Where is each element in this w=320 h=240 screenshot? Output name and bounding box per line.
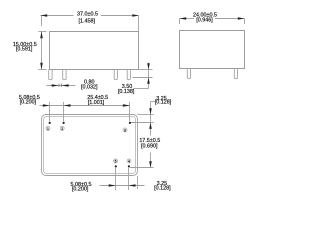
dimension 15.00 height line	[38, 32, 46, 70]
dimension 3.25 top right	[130, 102, 156, 168]
dimension 37.0 width line	[41, 16, 139, 32]
end view pin right	[234, 69, 237, 79]
dimension 5.08 and 25.4 top line	[40, 105, 130, 107]
dimension 17.5 label and arrow	[149, 161, 152, 167]
side view pin P3	[114, 70, 117, 80]
dimension 3.50 label	[118, 84, 135, 95]
extension lines pins 1 2 3 up	[50, 102, 130, 121]
svg-text:1: 1	[47, 127, 49, 131]
dimension 0.80 arrows	[52, 84, 69, 87]
svg-text:[0.128]: [0.128]	[155, 99, 172, 105]
pad dot 2	[63, 122, 65, 124]
svg-text:[0.591]: [0.591]	[16, 47, 33, 53]
pad dot 4	[128, 165, 130, 167]
dimension 3.50 pin length line	[133, 63, 153, 89]
pad dot 5	[115, 165, 117, 167]
dimension 3.25 bottom label	[154, 181, 171, 192]
dimension 5.08/25.4 arrows	[43, 104, 130, 107]
dimension 3.25 top arrows	[149, 108, 152, 129]
dimension 3.50 arrows	[147, 63, 150, 84]
bottom view outer outline	[42, 115, 138, 176]
svg-text:[0.200]: [0.200]	[72, 187, 89, 193]
dimension 0.80 pin width line	[47, 85, 76, 87]
pin number 3	[123, 128, 127, 133]
dimension 24.00 arrows	[180, 17, 245, 20]
side view pin P2	[63, 70, 66, 80]
svg-text:[0.946]: [0.946]	[196, 18, 213, 24]
pad dot 1	[49, 122, 51, 124]
dimension 5.08 bottom label	[71, 182, 92, 193]
dimension 0.80 ticks	[59, 84, 61, 87]
extension lines pins 5 4 down	[116, 168, 129, 190]
dimension 25.4 label	[87, 95, 108, 106]
svg-text:[0.128]: [0.128]	[154, 186, 171, 192]
svg-text:5: 5	[115, 160, 117, 164]
side view pin P1	[49, 70, 52, 80]
dimension 5.08 bottom line	[100, 176, 145, 189]
svg-text:[0.200]: [0.200]	[20, 99, 37, 105]
dimension 3.25 top label	[155, 96, 172, 106]
svg-text:[1.458]: [1.458]	[79, 19, 96, 25]
dimension 15.00 arrows	[40, 32, 43, 70]
svg-text:4: 4	[128, 160, 130, 164]
dimension 5.08 bottom arrows	[109, 184, 136, 187]
svg-text:37.0±0.5: 37.0±0.5	[77, 11, 98, 17]
svg-text:[1.001]: [1.001]	[88, 100, 105, 106]
svg-text:2: 2	[61, 127, 63, 131]
dimension 0.80 label	[81, 80, 98, 91]
bottom view inner outline	[44, 117, 136, 174]
end view pin left	[187, 69, 190, 79]
svg-text:3: 3	[124, 129, 126, 133]
dimension 37.0 label	[77, 11, 98, 24]
pin number 4	[127, 159, 131, 164]
svg-text:[0.690]: [0.690]	[141, 143, 158, 149]
pin number 2	[60, 126, 64, 131]
dimension 5.08 top label	[19, 95, 40, 105]
dimension 15.00 label	[13, 42, 37, 53]
side view pin P4	[127, 70, 130, 80]
dimension 24.00 label	[193, 12, 217, 23]
svg-text:[0.138]: [0.138]	[118, 89, 135, 95]
end view body	[180, 31, 245, 69]
side view body	[50, 32, 139, 70]
pin number 1	[46, 126, 50, 131]
pin number 5	[114, 159, 118, 164]
dimension 24.00 width line	[180, 19, 245, 25]
svg-text:[0.032]: [0.032]	[81, 84, 98, 90]
pad dot 3	[129, 122, 131, 124]
dimension 37.0 arrows	[41, 14, 139, 17]
